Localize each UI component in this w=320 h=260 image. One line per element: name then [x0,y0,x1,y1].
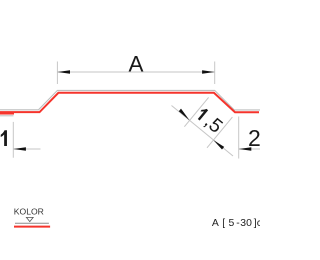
dimension 1,5: extension line lower [207,117,232,148]
legend KOLOR: pointer triangle [26,217,33,221]
note: A range text [212,218,271,229]
dimension A: right arrowhead [202,70,215,73]
dimension A: right extension line [214,62,216,85]
dimension 2: arrowhead [239,147,252,150]
legend KOLOR: gray sheet line [15,222,49,224]
svg-text:2: 2 [248,125,260,151]
dimension 1,5: extension line upper [184,97,208,126]
dimension 1,5: upper arrowhead [179,109,190,121]
dimension 1,5: label 1,5 [192,104,226,138]
svg-text:KOLOR: KOLOR [14,207,44,217]
dimension A: dimension line [57,71,214,73]
dimension 1,5: lower arrowhead [213,140,224,149]
dimension 1: label 1 [1,130,7,146]
dimension 1: dimension line [13,148,40,150]
dimension A: left arrowhead [57,70,70,73]
left hem fold red layer [0,113,14,115]
legend KOLOR: red color line [14,226,50,228]
svg-text:-: - [236,218,239,229]
dimension 1: extension line [12,122,14,158]
dimension 2: dimension line [239,148,260,150]
svg-text:[: [ [222,218,225,229]
dimension 2: extension line [238,117,240,159]
dimension A: left extension line [56,62,58,85]
profile top surface (gray outline line) [0,90,260,110]
svg-text:cm: cm [257,218,260,229]
profile colored underside (red line) [0,93,259,113]
dimension 1,5: dimension line [172,106,234,157]
svg-text:A: A [129,51,144,76]
svg-text:A: A [212,218,219,229]
dimension 1: arrowhead [13,147,26,150]
svg-text:5: 5 [229,218,235,229]
left hem fold gray bottom line [0,115,14,117]
svg-text:30: 30 [240,218,252,229]
